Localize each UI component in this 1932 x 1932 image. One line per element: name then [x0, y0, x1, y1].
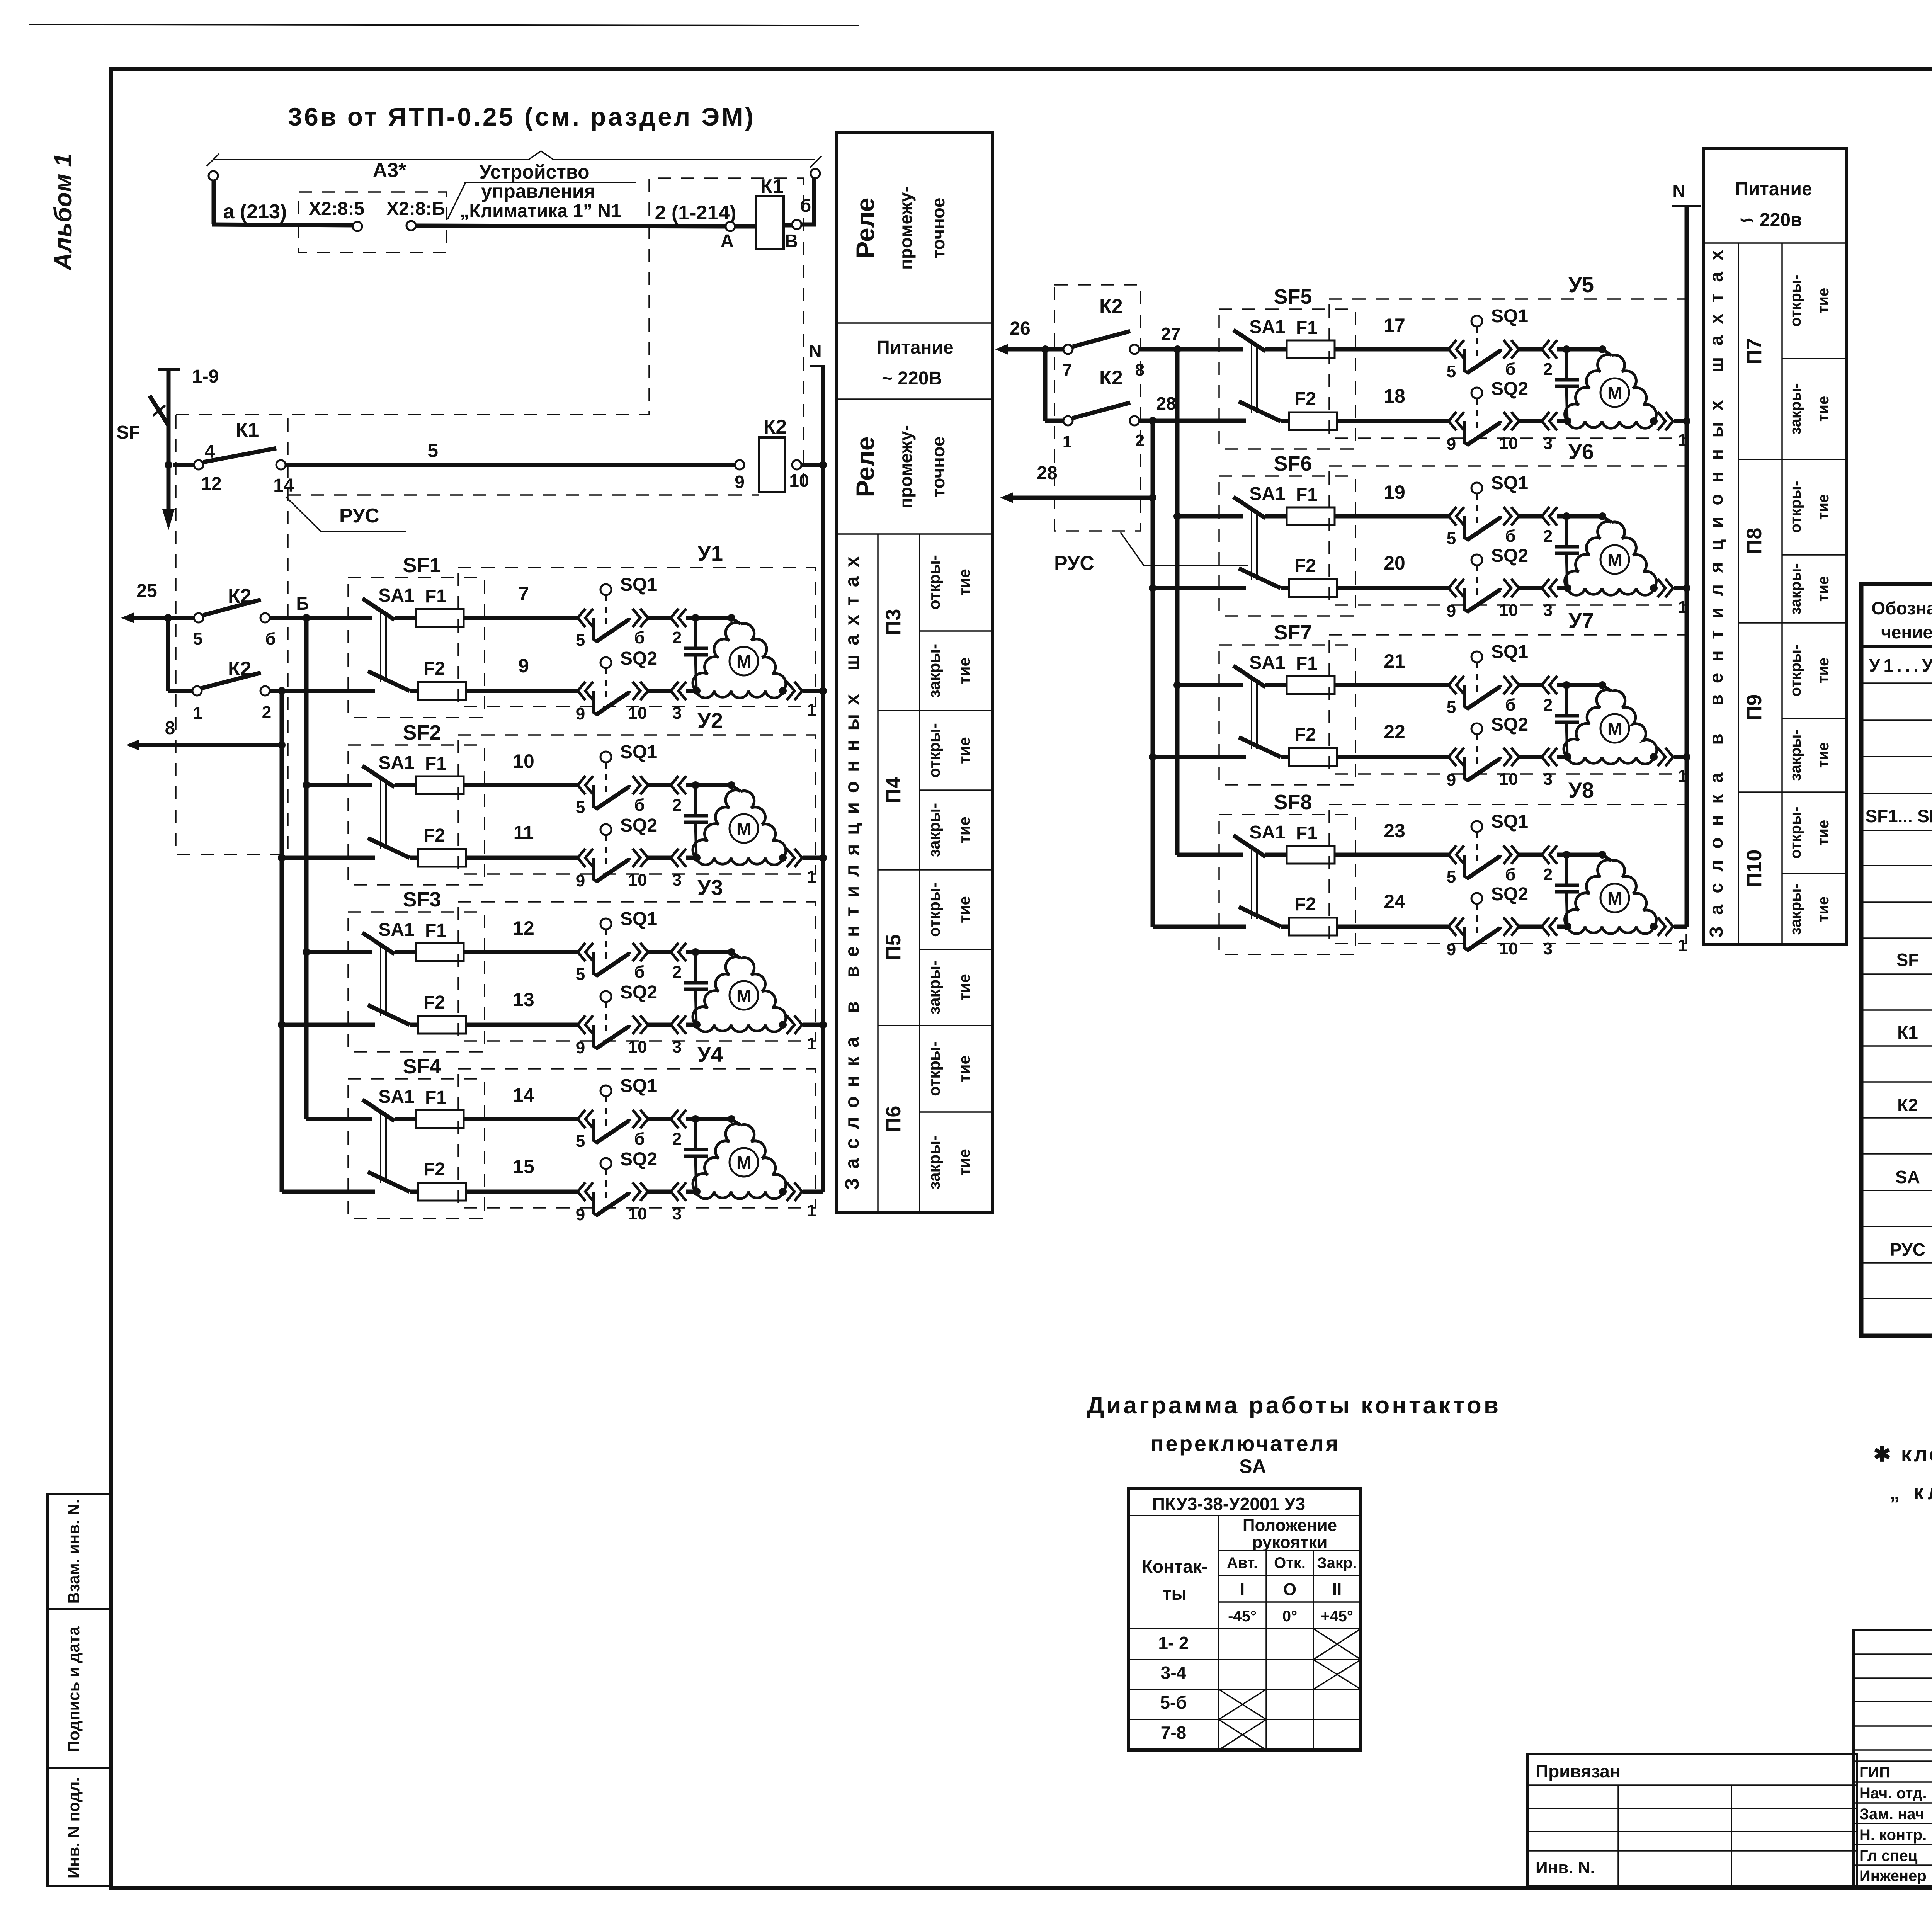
wire 23: [1177, 820, 1449, 855]
contact K2 upper: [193, 585, 276, 648]
wire 25 outgoing: [121, 581, 194, 623]
svg-text:откры-: откры-: [925, 1041, 943, 1096]
wire 8 outgoing: [126, 718, 282, 750]
fuse F2 of SF3: [418, 992, 466, 1034]
label У7: [1568, 608, 1594, 633]
wire 26 outgoing: [995, 318, 1063, 355]
limit switch SQ1 of У1: [576, 575, 686, 650]
svg-text:М: М: [736, 1153, 751, 1173]
panel SF8 dashed box: [1219, 815, 1355, 954]
label angles: [1228, 1608, 1353, 1625]
wire У6 return to N: [1557, 579, 1687, 617]
wire 2(1-214): [416, 202, 736, 226]
svg-text:У1: У1: [697, 541, 723, 565]
svg-text:9: 9: [1447, 940, 1456, 959]
svg-text:∽ 220в: ∽ 220в: [1739, 210, 1802, 230]
label SF2: [403, 721, 441, 744]
svg-text:2: 2: [672, 628, 682, 647]
svg-text:SQ2: SQ2: [620, 648, 657, 669]
svg-text:SQ1: SQ1: [620, 575, 657, 595]
actuator У6 dashed box: [1329, 466, 1686, 605]
svg-text:У6: У6: [1568, 439, 1594, 464]
svg-text:17: 17: [1384, 315, 1405, 336]
wire 7: [306, 583, 578, 618]
svg-text:А: А: [721, 231, 734, 252]
svg-text:Реле: Реле: [851, 198, 879, 259]
svg-text:3: 3: [672, 871, 682, 889]
capacitor of У6: [1555, 516, 1579, 588]
svg-text:2 (1-214): 2 (1-214): [655, 202, 736, 224]
label SF4: [403, 1055, 441, 1078]
svg-text:ГИП: ГИП: [1859, 1764, 1890, 1781]
capacitor of У4: [684, 1119, 708, 1192]
svg-text:F2: F2: [1294, 556, 1316, 576]
svg-text:П10: П10: [1743, 850, 1766, 888]
svg-text:1: 1: [1678, 767, 1687, 786]
contact K2 lower: [192, 658, 271, 723]
svg-text:SF: SF: [1896, 950, 1919, 970]
limit switch SQ2 of У6: [1447, 546, 1557, 621]
fuse F1 of SF2: [416, 753, 464, 794]
label closing: [1787, 563, 1832, 615]
fuse F1 of SF1: [416, 586, 464, 627]
svg-text:N: N: [1672, 181, 1685, 201]
svg-text:SA1: SA1: [1249, 484, 1285, 504]
svg-text:F2: F2: [423, 992, 445, 1013]
svg-text:закры-: закры-: [1787, 383, 1804, 435]
svg-text:5: 5: [1447, 698, 1456, 717]
svg-text:тие: тие: [955, 974, 973, 1001]
label A3*: [373, 159, 406, 182]
svg-text:1: 1: [193, 704, 202, 723]
svg-text:закры-: закры-: [925, 803, 943, 857]
svg-text:10: 10: [628, 1204, 647, 1223]
svg-text:откры-: откры-: [925, 882, 943, 937]
wire 12: [306, 917, 578, 952]
svg-text:13: 13: [513, 989, 534, 1010]
svg-text:П9: П9: [1743, 694, 1766, 721]
svg-text:10: 10: [513, 750, 534, 772]
bus phase F1 left: [303, 618, 310, 1119]
wire 5: [286, 440, 735, 465]
wire SQ1 to motor У3: [686, 948, 735, 956]
label X2:8:6: [386, 199, 445, 219]
svg-text:Б: Б: [296, 594, 309, 614]
component SF1-SF8 panel: [1866, 806, 1932, 827]
switch SA1 of SF1: [362, 585, 415, 691]
svg-text:б: б: [634, 1129, 645, 1148]
row contact 5-б: [1160, 1692, 1187, 1713]
label closing: [925, 644, 973, 698]
wire 24: [1153, 891, 1449, 927]
svg-text:27: 27: [1161, 324, 1180, 344]
svg-text:15: 15: [513, 1156, 534, 1177]
terminal B: [785, 196, 811, 252]
svg-text:б: б: [800, 196, 811, 216]
fuse F2 of SF1: [418, 658, 466, 700]
svg-text:Гл спец: Гл спец: [1859, 1847, 1918, 1864]
label SF7: [1274, 621, 1312, 644]
svg-text:Взам. инв. N.: Взам. инв. N.: [65, 1499, 83, 1604]
label PKU3-38 type: [1152, 1494, 1305, 1514]
table damper shafts P3-P6: [837, 133, 992, 1213]
svg-text:10: 10: [789, 471, 809, 491]
svg-text:Инв. N подл.: Инв. N подл.: [65, 1777, 83, 1878]
svg-text:SF4: SF4: [403, 1055, 441, 1078]
bus N right: [1672, 181, 1701, 927]
svg-text:2: 2: [672, 1129, 682, 1148]
wire SQ1 to motor У8: [1557, 851, 1606, 859]
svg-text:21: 21: [1384, 650, 1405, 672]
svg-text:М: М: [1607, 550, 1622, 570]
fuse F1 of SF7: [1287, 653, 1335, 694]
actuator У2 dashed box: [458, 735, 815, 874]
svg-text:5: 5: [427, 440, 438, 461]
svg-text:б: б: [265, 629, 276, 648]
svg-text:SQ2: SQ2: [620, 982, 657, 1003]
bus phase F1 right: [1173, 349, 1181, 855]
staff row Нач. отд.: [1859, 1784, 1932, 1802]
svg-text:б: б: [1505, 865, 1515, 884]
svg-text:9: 9: [576, 1205, 585, 1224]
wire to lower contact right: [1045, 349, 1063, 421]
svg-text:ты: ты: [1163, 1583, 1187, 1604]
svg-text:2: 2: [1543, 865, 1553, 884]
svg-text:SА: SА: [1239, 1456, 1266, 1477]
svg-text:тие: тие: [955, 569, 973, 596]
label У6: [1568, 439, 1594, 464]
label SF1: [403, 554, 441, 577]
svg-text:У8: У8: [1568, 778, 1594, 802]
diagram title: [1087, 1392, 1498, 1477]
svg-text:3: 3: [672, 1037, 682, 1056]
svg-text:У2: У2: [697, 708, 723, 733]
panel SF6 dashed box: [1219, 476, 1355, 616]
wire SQ1 to motor У6: [1557, 512, 1606, 520]
wire a(213): [212, 201, 355, 225]
svg-text:36в от ЯТП-0.25 (см. раздел: 36в от ЯТП-0.25 (см. раздел ЭМ): [288, 102, 753, 131]
svg-text:тие: тие: [955, 737, 973, 764]
panel SF5 dashed box: [1219, 309, 1355, 449]
svg-text:К1: К1: [236, 419, 259, 441]
svg-text:откры-: откры-: [1787, 481, 1804, 533]
svg-text:SF2: SF2: [403, 721, 441, 744]
wire У4 return to N: [686, 1182, 823, 1220]
staff row Инженер: [1859, 1866, 1932, 1884]
svg-text:К2: К2: [228, 585, 252, 607]
svg-text:б: б: [1505, 527, 1515, 546]
svg-text:5: 5: [1447, 867, 1456, 886]
svg-text:У1...У8: У1...У8: [1869, 655, 1932, 675]
svg-text:У3: У3: [697, 875, 723, 900]
svg-text:1: 1: [1063, 432, 1072, 451]
panel SF2 dashed box: [348, 745, 485, 885]
limit switch SQ1 of У4: [576, 1076, 686, 1151]
wire 17: [1177, 315, 1449, 349]
label relay intermediate upper: [851, 186, 948, 270]
label У8: [1568, 778, 1594, 802]
svg-text:F1: F1: [1296, 318, 1318, 338]
label П5: [882, 934, 905, 961]
svg-text:чение: чение: [1881, 622, 1932, 642]
svg-text:Закр.: Закр.: [1317, 1554, 1357, 1571]
capacitor of У5: [1555, 349, 1579, 421]
label П7: [1743, 338, 1766, 365]
wire 13: [282, 989, 578, 1025]
label opening: [925, 723, 973, 778]
label У2: [697, 708, 723, 733]
svg-text:3: 3: [1543, 939, 1553, 958]
svg-text:F1: F1: [425, 1087, 447, 1108]
svg-text:Н. контр.: Н. контр.: [1859, 1827, 1927, 1844]
svg-text:тие: тие: [955, 816, 973, 844]
svg-text:SQ2: SQ2: [1491, 546, 1528, 566]
label opening: [1787, 645, 1832, 697]
label П9: [1743, 694, 1766, 721]
motor M of У5: [1564, 349, 1658, 428]
fuse F2 of SF6: [1289, 556, 1337, 597]
footnote asterisk: [1873, 1442, 1932, 1504]
contactor coil K2: [735, 416, 827, 492]
svg-text:У5: У5: [1568, 272, 1594, 297]
svg-text:2: 2: [672, 963, 682, 981]
node a(213) terminal: [209, 171, 218, 224]
svg-text:б: б: [634, 628, 645, 647]
svg-text:SA1: SA1: [1249, 822, 1285, 843]
svg-text:F2: F2: [423, 1159, 445, 1180]
svg-text:рукоятки: рукоятки: [1252, 1533, 1328, 1552]
fuse F2 of SF2: [418, 825, 466, 867]
svg-text:У4: У4: [697, 1042, 723, 1066]
label opening: [1787, 807, 1832, 859]
svg-text:7: 7: [1063, 361, 1072, 379]
svg-text:К2: К2: [1099, 367, 1123, 389]
label closing: [925, 803, 973, 857]
svg-text:19: 19: [1384, 481, 1405, 503]
svg-text:1-9: 1-9: [192, 366, 219, 387]
svg-text:В: В: [785, 231, 798, 252]
svg-text:3: 3: [1543, 770, 1553, 789]
cabinet RUS dashed boundary: [176, 415, 288, 854]
switch SA1 of SF5: [1233, 317, 1286, 421]
svg-text:SA1: SA1: [378, 920, 414, 940]
wire SQ1 to motor У1: [686, 614, 735, 622]
svg-text:откры-: откры-: [925, 555, 943, 610]
fuse F2 of SF4: [418, 1159, 466, 1201]
svg-text:О: О: [1283, 1580, 1296, 1599]
svg-text:N: N: [809, 341, 821, 361]
svg-text:Альбом 1: Альбом 1: [49, 153, 77, 271]
motor M of У6: [1564, 516, 1658, 595]
limit switch SQ1 of У6: [1447, 473, 1557, 548]
svg-text:SA1: SA1: [1249, 653, 1285, 673]
svg-text:F1: F1: [425, 753, 447, 774]
svg-text:12: 12: [201, 474, 221, 494]
actuator У8 dashed box: [1329, 804, 1686, 944]
limit switch SQ2 of У8: [1447, 884, 1557, 959]
actuator У3 dashed box: [458, 902, 815, 1041]
svg-text:1: 1: [1678, 598, 1687, 617]
svg-text:закры-: закры-: [925, 644, 943, 698]
svg-text:10: 10: [628, 1037, 647, 1056]
svg-text:SF5: SF5: [1274, 285, 1312, 308]
svg-text:SF3: SF3: [403, 888, 441, 911]
svg-text:точное: точное: [928, 436, 948, 497]
svg-text:SA1: SA1: [378, 585, 414, 606]
fuse F1 of SF3: [416, 920, 464, 961]
component RUS box: [1890, 1240, 1932, 1260]
bus N left: [809, 341, 827, 1192]
actuator У7 dashed box: [1329, 635, 1686, 774]
svg-text:23: 23: [1384, 820, 1405, 842]
svg-text:Нач. отд.: Нач. отд.: [1859, 1785, 1927, 1802]
svg-text:26: 26: [1010, 318, 1030, 339]
reference table privyazan: [1527, 1754, 1857, 1886]
wire У1 return to N: [686, 682, 823, 719]
label positions I O II: [1240, 1580, 1342, 1599]
svg-text:5: 5: [1447, 529, 1456, 548]
svg-text:X2:8:5: X2:8:5: [309, 199, 364, 219]
svg-text:П3: П3: [882, 609, 905, 636]
svg-text:закры-: закры-: [1787, 729, 1804, 781]
node 36v supply bus bracket: [207, 151, 821, 168]
svg-text:F1: F1: [425, 920, 447, 941]
selector SA contact state table: [1128, 1489, 1361, 1750]
terminal A: [721, 222, 735, 252]
svg-text:откры-: откры-: [1787, 645, 1804, 697]
wire SF down arrow: [162, 465, 175, 530]
svg-text:~ 220В: ~ 220В: [882, 368, 942, 389]
row contact 1- 2: [1158, 1633, 1189, 1653]
svg-text:откры-: откры-: [1787, 807, 1804, 859]
svg-text:SA1: SA1: [378, 1087, 414, 1107]
svg-text:F2: F2: [1294, 724, 1316, 745]
svg-text:РУС: РУС: [1890, 1240, 1925, 1260]
bus phase F2 right: [1149, 421, 1156, 927]
row contact 7-8: [1161, 1723, 1186, 1743]
svg-text:5: 5: [576, 631, 585, 650]
svg-text:М: М: [736, 651, 751, 672]
capacitor of У2: [684, 785, 708, 858]
svg-text:10: 10: [1499, 601, 1518, 620]
svg-text:закры-: закры-: [925, 960, 943, 1014]
label damper in ventilation shafts right: [1706, 250, 1727, 938]
svg-text:18: 18: [1384, 385, 1405, 407]
svg-text:SF1: SF1: [403, 554, 441, 577]
svg-text:II: II: [1332, 1580, 1342, 1599]
connector pins X2: [353, 221, 416, 231]
svg-text:F1: F1: [1296, 485, 1318, 505]
label RUS: [286, 497, 406, 531]
svg-text:9: 9: [735, 472, 745, 492]
fuse F1 of SF4: [416, 1087, 464, 1128]
node B: [270, 594, 372, 622]
label closing: [1787, 883, 1832, 935]
svg-text:1: 1: [1678, 431, 1687, 450]
svg-text:1: 1: [807, 1034, 816, 1053]
svg-text:SF1... SF8: SF1... SF8: [1866, 806, 1932, 826]
svg-text:тие: тие: [955, 896, 973, 923]
fuse F2 of SF7: [1289, 724, 1337, 766]
svg-text:14: 14: [513, 1084, 534, 1106]
label П8: [1743, 528, 1766, 554]
node 12: [165, 442, 222, 494]
wire to lower contact: [168, 618, 192, 691]
wire 14: [306, 1084, 578, 1119]
svg-text:А3*: А3*: [373, 159, 406, 182]
label У1: [697, 541, 723, 565]
panel SF4 dashed box: [348, 1079, 485, 1219]
svg-text:22: 22: [1384, 721, 1405, 743]
svg-text:11: 11: [514, 822, 534, 844]
svg-text:М: М: [736, 986, 751, 1006]
switch SA1 of SF8: [1233, 822, 1286, 927]
svg-text:a (213): a (213): [223, 201, 287, 223]
contact K2 upper right: [1063, 295, 1145, 379]
wire 15: [282, 1156, 578, 1192]
svg-text:F1: F1: [425, 586, 447, 607]
svg-text:0°: 0°: [1282, 1608, 1297, 1625]
svg-text:б: б: [1505, 696, 1515, 714]
svg-text:РУС: РУС: [339, 505, 379, 527]
svg-text:10: 10: [1499, 770, 1518, 789]
staff row Н. контр.: [1859, 1825, 1932, 1844]
svg-text:SQ2: SQ2: [620, 1149, 657, 1170]
wire 21: [1177, 650, 1449, 685]
svg-text:П8: П8: [1743, 528, 1766, 554]
label opening: [1787, 275, 1832, 327]
node 27: [1139, 324, 1243, 353]
svg-text:SF7: SF7: [1274, 621, 1312, 644]
svg-text:10: 10: [628, 704, 647, 723]
svg-text:Привязан: Привязан: [1536, 1761, 1621, 1781]
wire SQ1 to motor У5: [1557, 345, 1606, 353]
wire SQ1 to motor У7: [1557, 681, 1606, 689]
label contacts: [1142, 1556, 1207, 1604]
svg-text:SF8: SF8: [1274, 791, 1312, 814]
label У3: [697, 875, 723, 900]
svg-text:I: I: [1240, 1580, 1245, 1599]
svg-text:1: 1: [807, 1201, 816, 1220]
wire 20: [1153, 552, 1449, 588]
svg-text:откры-: откры-: [925, 723, 943, 778]
svg-text:3: 3: [672, 704, 682, 723]
svg-text:9: 9: [1447, 770, 1456, 789]
svg-text:2: 2: [1135, 431, 1145, 450]
label У5: [1568, 272, 1594, 297]
svg-text:Питание: Питание: [876, 337, 953, 358]
svg-text:5: 5: [576, 798, 585, 817]
svg-text:25: 25: [136, 581, 157, 601]
svg-text:б: б: [634, 796, 645, 815]
label 36v from YATP-0.25: [288, 102, 753, 131]
svg-text:28: 28: [1156, 393, 1176, 413]
label П10: [1743, 850, 1766, 888]
label П4: [882, 777, 905, 804]
svg-text:П5: П5: [882, 934, 905, 961]
node 14: [273, 460, 294, 496]
svg-text:12: 12: [513, 917, 534, 939]
fuse F1 of SF5: [1287, 318, 1335, 358]
limit switch SQ2 of У7: [1447, 714, 1557, 789]
wire 28 outgoing: [1000, 463, 1156, 503]
svg-text:20: 20: [1384, 552, 1405, 574]
svg-text:7-8: 7-8: [1161, 1723, 1186, 1743]
svg-text:2: 2: [1543, 527, 1553, 546]
label closing: [1787, 729, 1832, 781]
svg-text:РУС: РУС: [1054, 552, 1094, 575]
svg-text:К1: К1: [1897, 1022, 1918, 1043]
